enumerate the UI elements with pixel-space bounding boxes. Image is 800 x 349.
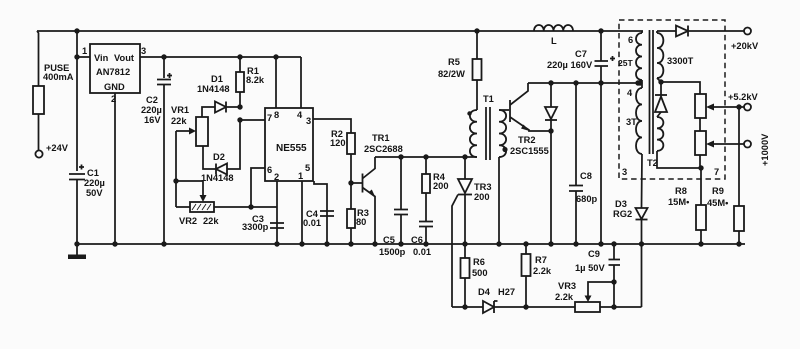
resistor R1 8.2k — [237, 54, 242, 59]
node: pin1 junction — [74, 54, 79, 59]
svg-text:200: 200 — [433, 181, 449, 191]
transformer T2 right winding 3300T lower — [657, 117, 663, 151]
svg-text:500: 500 — [472, 268, 488, 278]
capacitor C2 220u 16V — [161, 54, 166, 59]
resistor R4 200 + capacitor C6 0.01 — [423, 154, 428, 159]
svg-text:VR1: VR1 — [171, 105, 189, 115]
wire: VR2 right to pin2/6 node — [214, 206, 277, 208]
node: rail junction at C1 branch — [74, 28, 79, 33]
diode output rectifier to +20kV — [657, 30, 676, 32]
svg-text:16V: 16V — [144, 115, 161, 125]
svg-text:2.2k: 2.2k — [533, 266, 552, 276]
transformer T2 right winding 3300T upper — [656, 31, 658, 33]
svg-text:C2: C2 — [146, 95, 158, 105]
diode damper across TR2 — [548, 80, 553, 85]
capacitor C9 1u 50V — [611, 241, 616, 246]
svg-text:R9: R9 — [712, 186, 724, 196]
T1 phase dot — [467, 111, 471, 115]
svg-text:T1: T1 — [483, 94, 494, 104]
svg-text:R6: R6 — [473, 257, 485, 267]
wire: +5.2kV tap — [706, 104, 714, 111]
svg-text:80: 80 — [356, 217, 366, 227]
svg-text:TR1: TR1 — [372, 133, 390, 143]
svg-text:D4: D4 — [478, 287, 491, 297]
T1 secondary winding — [499, 110, 506, 157]
svg-text:200: 200 — [474, 192, 490, 202]
svg-text:680p: 680p — [576, 194, 598, 204]
svg-text:GND: GND — [104, 82, 125, 92]
svg-text:RG2: RG2 — [613, 209, 632, 219]
fuse PUSE 400mA — [33, 86, 44, 114]
wire: top +24V rail — [37, 30, 643, 32]
svg-text:45M•: 45M• — [707, 198, 728, 208]
capacitor C5 1500p — [398, 154, 403, 159]
svg-text:+5.2kV: +5.2kV — [728, 92, 759, 102]
T1 primary winding — [470, 110, 477, 157]
svg-text:C7: C7 — [575, 49, 587, 59]
wire: lower line y=307 — [452, 306, 483, 308]
wire: vertical x=77 rail to pin1/C1 — [76, 31, 78, 171]
resistor R3 80 — [350, 183, 352, 209]
op-amp U2 timer NE555 — [265, 108, 313, 181]
wire: pin 2 GND — [114, 93, 116, 244]
resistor R5 82/2W — [474, 28, 479, 33]
resistor divider upper (inside box) — [695, 94, 706, 118]
svg-text:4: 4 — [297, 110, 303, 120]
wire: pin 3 Vout line — [140, 56, 301, 58]
svg-text:2SC2688: 2SC2688 — [364, 144, 403, 154]
resistor R7 2.2k — [523, 241, 528, 246]
wire: pin 1 down — [301, 181, 303, 244]
resistor R2 120 — [347, 133, 355, 154]
wire: bottom ground rail — [77, 243, 745, 245]
capacitor C8 680p — [573, 80, 578, 85]
svg-text:50V: 50V — [86, 188, 103, 198]
wire: 3300T tap to divider chain — [661, 82, 700, 94]
svg-text:H27: H27 — [498, 287, 515, 297]
svg-text:TR3: TR3 — [474, 182, 492, 192]
thyristor TR3 200 — [462, 154, 467, 159]
wire: pin 3 to R2 — [313, 119, 351, 133]
transistor Q2 TR2 2SC1555 — [499, 109, 509, 111]
svg-text:6: 6 — [267, 165, 272, 175]
svg-text:15M•: 15M• — [668, 197, 689, 207]
svg-text:AN7812: AN7812 — [96, 67, 130, 77]
wire: pin 1 — [77, 56, 90, 58]
svg-text:C8: C8 — [580, 171, 592, 181]
svg-text:3: 3 — [306, 116, 311, 126]
capacitor C1 220u 50V — [69, 174, 85, 180]
svg-text:3T: 3T — [626, 117, 637, 127]
resistor R6 500 — [464, 244, 466, 258]
wire: from y=307 up to ground rail at D3 line — [641, 244, 643, 307]
svg-text:D1: D1 — [211, 74, 223, 84]
wire: TR1 collector line y=157 — [375, 156, 477, 158]
svg-text:400mA: 400mA — [43, 72, 74, 82]
capacitor C4 0.01 — [320, 211, 334, 216]
wire: +1000V tap — [706, 141, 714, 148]
svg-text:25T: 25T — [618, 58, 634, 68]
wire: left vertical from rail to fuse — [37, 31, 39, 86]
wire: pin 7 — [240, 119, 265, 121]
svg-text:220µ 160V: 220µ 160V — [547, 60, 593, 70]
T1 core — [486, 107, 490, 160]
wire: pin 8 — [275, 57, 277, 108]
svg-text:3: 3 — [141, 46, 146, 56]
svg-text:R5: R5 — [448, 57, 460, 67]
svg-text:1N4148: 1N4148 — [197, 84, 230, 94]
svg-text:0.01: 0.01 — [303, 218, 321, 228]
node: rail bottom-left — [74, 241, 79, 246]
svg-text:D3: D3 — [615, 199, 627, 209]
wire: pin 2 down — [276, 181, 278, 244]
svg-text:2.2k: 2.2k — [555, 292, 574, 302]
svg-text:C6: C6 — [411, 235, 423, 245]
svg-text:220µ: 220µ — [84, 178, 105, 188]
capacitor C3 3300p — [270, 223, 284, 228]
svg-text:22k: 22k — [203, 216, 219, 226]
svg-text:1: 1 — [82, 46, 87, 56]
svg-text:2SC1555: 2SC1555 — [510, 146, 549, 156]
svg-text:L: L — [551, 36, 557, 46]
svg-text:+24V: +24V — [46, 143, 69, 153]
svg-text:Vin: Vin — [94, 53, 109, 63]
resistor R9 45M — [738, 107, 740, 206]
svg-text:R7: R7 — [535, 255, 547, 265]
svg-text:7: 7 — [267, 113, 272, 123]
op-amp U1 regulator AN7812 — [90, 44, 140, 93]
svg-text:1: 1 — [298, 171, 303, 181]
svg-text:1N4148: 1N4148 — [201, 173, 234, 183]
svg-text:120: 120 — [330, 138, 346, 148]
terminal +24V — [35, 150, 42, 157]
terminal +20kV — [744, 28, 751, 35]
svg-text:8.2k: 8.2k — [246, 75, 265, 85]
svg-text:2: 2 — [111, 94, 116, 104]
ground — [76, 244, 78, 255]
wire: collector bus y=83 — [528, 82, 638, 84]
svg-text:VR2: VR2 — [179, 216, 197, 226]
svg-text:NE555: NE555 — [276, 143, 307, 154]
resistor divider lower (inside box) — [695, 131, 706, 155]
wire: pin 4 — [300, 57, 302, 108]
svg-text:1500p: 1500p — [379, 247, 406, 257]
transistor Q1 TR1 2SC2688 — [351, 182, 362, 184]
svg-text:TR2: TR2 — [518, 135, 536, 145]
svg-text:7: 7 — [714, 167, 719, 177]
svg-text:R8: R8 — [675, 186, 687, 196]
svg-text:4: 4 — [627, 88, 633, 98]
svg-text:0.01: 0.01 — [413, 247, 431, 257]
svg-text:3: 3 — [622, 167, 627, 177]
svg-text:C5: C5 — [383, 235, 395, 245]
svg-text:+20kV: +20kV — [731, 41, 759, 51]
svg-text:C9: C9 — [588, 249, 600, 259]
svg-text:3300T: 3300T — [667, 56, 694, 66]
svg-text:D2: D2 — [213, 152, 225, 162]
svg-text:6: 6 — [628, 35, 633, 45]
svg-text:VR3: VR3 — [558, 281, 576, 291]
resistor R8 15M — [700, 168, 702, 205]
svg-text:5: 5 — [305, 163, 310, 173]
wire: pin 5 down — [314, 181, 327, 244]
svg-text:Vout: Vout — [114, 53, 134, 63]
svg-text:8: 8 — [274, 110, 279, 120]
svg-text:82/2W: 82/2W — [438, 69, 465, 79]
svg-text:C1: C1 — [87, 168, 99, 178]
svg-text:+1000V: +1000V — [760, 133, 770, 166]
inductor L — [534, 25, 573, 31]
svg-text:1µ 50V: 1µ 50V — [575, 263, 605, 273]
svg-text:3300p: 3300p — [242, 222, 269, 232]
potentiometer VR2 22k — [176, 206, 190, 208]
capacitor C7 220u 160V — [598, 28, 603, 33]
T2 core — [650, 30, 654, 154]
wire: VR1 wiper — [176, 130, 191, 132]
dashed box T2 assembly — [619, 20, 725, 179]
diode inside T2 (rectifier) — [660, 82, 662, 95]
svg-text:220µ: 220µ — [141, 105, 162, 115]
svg-text:22k: 22k — [171, 116, 187, 126]
svg-text:2: 2 — [274, 172, 279, 182]
